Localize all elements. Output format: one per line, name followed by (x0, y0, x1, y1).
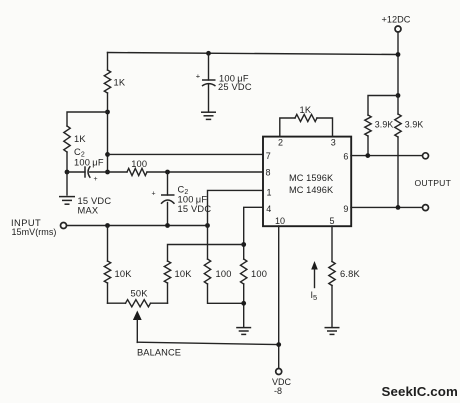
svg-text:MC 1596K: MC 1596K (289, 173, 334, 183)
resistor 1K pins2-3 (280, 118, 295, 137)
svg-text:1K: 1K (114, 78, 126, 88)
svg-text:100 μF: 100 μF (74, 158, 104, 168)
svg-text:-8: -8 (274, 386, 282, 396)
node pin7 branch junction (105, 152, 110, 157)
capacitor C2 100uF horizontal (67, 171, 85, 173)
node pin4 junction (241, 242, 246, 247)
current arrow I5 (311, 261, 318, 270)
wire pin1 hook (208, 190, 264, 225)
node input/C2 junction (165, 223, 170, 228)
svg-text:+: + (94, 176, 98, 183)
resistor 10K #1 (107, 226, 109, 262)
svg-text:3: 3 (331, 138, 336, 148)
svg-text:5: 5 (330, 216, 335, 226)
wire balance top link (168, 245, 244, 262)
svg-text:15 VDC: 15 VDC (178, 204, 212, 214)
wire pin7 line (108, 153, 264, 155)
resistor 10K #2 (164, 261, 170, 283)
wire left branch (67, 112, 108, 126)
svg-text:3.9K: 3.9K (405, 120, 424, 130)
wire pin4 hook (244, 207, 263, 259)
resistor 3.9K right (397, 96, 399, 115)
wire pin6 output (351, 155, 422, 157)
resistor 100 horizontal (108, 171, 128, 173)
svg-text:6: 6 (343, 151, 348, 161)
svg-text:10K: 10K (175, 269, 193, 279)
svg-text:+12DC: +12DC (382, 15, 411, 25)
terminal output bottom (423, 205, 429, 211)
terminal INPUT (61, 223, 67, 229)
resistor 3.9K left (365, 115, 371, 136)
svg-text:+: + (196, 72, 201, 81)
terminal +12DC (395, 26, 401, 32)
node balance/-8V junction (276, 342, 281, 347)
svg-text:OUTPUT: OUTPUT (415, 178, 452, 188)
ground under 25VDC cap (201, 112, 216, 119)
svg-text:100: 100 (216, 269, 232, 279)
resistor 1K top-left (104, 70, 110, 93)
svg-text:1K: 1K (300, 105, 312, 115)
svg-text:8: 8 (266, 167, 271, 177)
resistor 1K left (64, 126, 70, 152)
op-amp U1 MC1596K box (263, 137, 351, 227)
svg-text:1: 1 (267, 188, 272, 198)
svg-text:3.9K: 3.9K (375, 120, 394, 130)
node 1K bottom junction (105, 110, 110, 115)
resistor 6.8K (331, 226, 333, 262)
svg-text:100: 100 (131, 159, 147, 169)
node pin6/3.9K junction (365, 153, 370, 158)
svg-text:25 VDC: 25 VDC (218, 82, 252, 92)
potentiometer 50K (108, 302, 126, 304)
wire input line (67, 225, 208, 227)
terminal output top (423, 153, 429, 159)
resistor 100 #3 (207, 226, 209, 260)
node 100-resistors/ground junction (241, 301, 246, 306)
node rail split (396, 93, 401, 98)
svg-text:2: 2 (278, 138, 283, 148)
svg-text:15mV(rms): 15mV(rms) (12, 227, 57, 237)
resistor 100 #4 (241, 259, 247, 284)
terminal VDC -8 (276, 369, 282, 375)
svg-text:100: 100 (251, 269, 267, 279)
wire top +12V rail (108, 53, 399, 55)
node pin9/3.9K junction (396, 205, 401, 210)
svg-text:SeekIC.com: SeekIC.com (382, 384, 458, 399)
node 100/C2 junction (165, 170, 170, 175)
svg-text:MC 1496K: MC 1496K (289, 185, 334, 195)
node carrier line junction (105, 170, 110, 175)
svg-text:10: 10 (275, 216, 285, 226)
node top-rail/+12 junction (396, 52, 401, 57)
svg-text:+: + (152, 191, 156, 198)
svg-text:6.8K: 6.8K (340, 269, 361, 279)
ground 15VDC MAX (66, 172, 68, 195)
wire pin9 output (351, 206, 422, 208)
wire +12DC stub (397, 32, 399, 96)
ground under 6.8K (325, 328, 340, 335)
svg-text:10K: 10K (115, 269, 133, 279)
wiper arrow (133, 311, 142, 321)
svg-text:7: 7 (266, 151, 271, 161)
svg-text:MAX: MAX (78, 206, 99, 216)
wire pin10 to -8VDC (278, 226, 280, 368)
node rail/cap junction (206, 51, 211, 56)
svg-text:100 μF: 100 μF (178, 195, 208, 205)
wire balance to -8V node (137, 342, 278, 344)
svg-text:9: 9 (343, 204, 348, 214)
svg-text:50K: 50K (131, 289, 149, 299)
svg-text:4: 4 (266, 204, 271, 214)
svg-text:BALANCE: BALANCE (137, 348, 181, 358)
ground under 100 resistors (236, 328, 251, 335)
node input/pin1 junction (205, 223, 210, 228)
node cap/gnd junction (65, 170, 70, 175)
svg-text:1K: 1K (74, 134, 86, 144)
svg-text:15 VDC: 15 VDC (78, 196, 112, 206)
node input/10K junction (105, 223, 110, 228)
capacitor C2 100uF 15VDC vertical (167, 172, 169, 195)
wire 3.9K branch (368, 96, 398, 116)
